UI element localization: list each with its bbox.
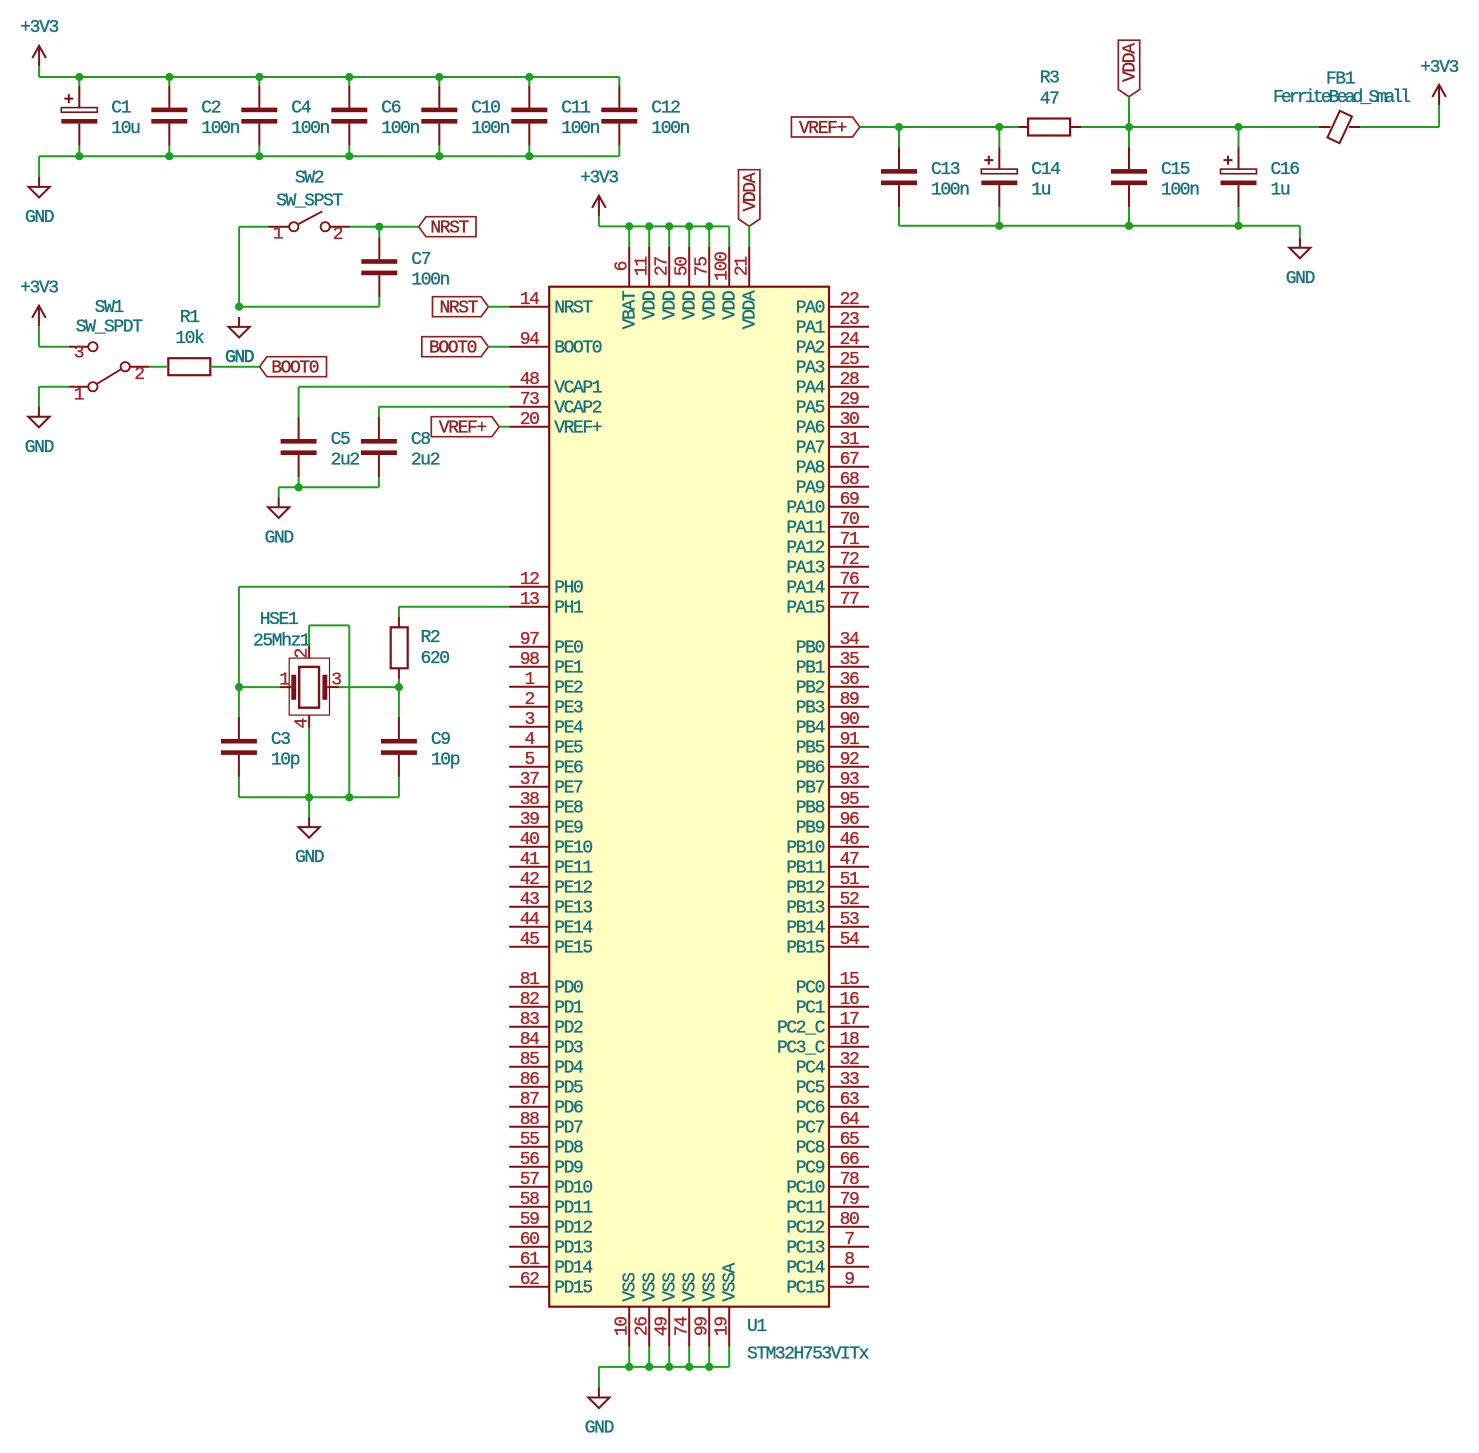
junction	[165, 152, 173, 160]
svg-text:PB11: PB11	[786, 859, 824, 879]
junction	[375, 223, 383, 231]
capacitor C6	[331, 86, 419, 146]
wire	[38, 387, 40, 407]
wire	[998, 207, 1000, 226]
pin PE0 (97)	[509, 630, 583, 659]
wire	[239, 686, 279, 688]
pin PB14 (53)	[786, 910, 869, 939]
svg-text:10: 10	[613, 1317, 633, 1336]
svg-text:PD1: PD1	[554, 999, 583, 1019]
wire	[348, 625, 350, 797]
pin PE14 (44)	[509, 910, 592, 939]
svg-text:+3V3: +3V3	[20, 18, 58, 38]
capacitor C3	[221, 717, 300, 777]
capacitor C2	[151, 86, 239, 146]
wire	[379, 226, 418, 228]
svg-text:VDDA: VDDA	[741, 172, 761, 211]
wire	[1128, 97, 1130, 127]
pin NRST (14)	[509, 290, 593, 319]
svg-text:100n: 100n	[411, 271, 449, 291]
svg-text:VSS: VSS	[661, 1273, 681, 1302]
svg-text:PA12: PA12	[786, 539, 824, 559]
svg-text:67: 67	[840, 450, 859, 470]
pin VSS (99)	[693, 1273, 721, 1347]
svg-text:11: 11	[633, 257, 653, 276]
resistor R3	[1028, 69, 1070, 136]
wire VDD bus	[599, 225, 729, 227]
pin PE7 (37)	[509, 770, 583, 799]
svg-text:C8: C8	[411, 430, 430, 450]
pin PE12 (42)	[509, 870, 592, 899]
svg-text:100n: 100n	[1161, 181, 1199, 201]
svg-text:93: 93	[840, 770, 859, 790]
svg-text:25Mhz1: 25Mhz1	[253, 632, 310, 652]
svg-text:PC0: PC0	[796, 979, 825, 999]
svg-text:71: 71	[840, 530, 859, 550]
svg-text:VREF+: VREF+	[799, 119, 847, 139]
ground (VCAP)	[265, 497, 294, 548]
pin PB7 (93)	[796, 770, 869, 799]
svg-text:PB4: PB4	[796, 719, 825, 739]
svg-text:PA3: PA3	[796, 359, 825, 379]
svg-text:PE0: PE0	[554, 639, 583, 659]
svg-text:81: 81	[520, 970, 539, 990]
svg-text:9: 9	[844, 1270, 854, 1290]
pin PB11 (47)	[786, 850, 869, 879]
svg-text:49: 49	[653, 1317, 673, 1336]
svg-text:1u: 1u	[1031, 181, 1050, 201]
wire	[348, 77, 350, 86]
svg-text:PA1: PA1	[796, 319, 825, 339]
svg-text:87: 87	[520, 1090, 539, 1110]
ground (crystal)	[295, 817, 324, 868]
svg-text:PC6: PC6	[796, 1099, 825, 1119]
pin PA9 (68)	[796, 470, 869, 499]
pin PC13 (7)	[786, 1230, 869, 1259]
svg-text:20: 20	[520, 410, 539, 430]
pin PD6 (87)	[509, 1090, 583, 1119]
wire VSS bus	[599, 1366, 729, 1368]
wire	[279, 486, 379, 488]
svg-text:16: 16	[840, 990, 859, 1010]
wire	[298, 477, 300, 487]
pin PA13 (72)	[786, 550, 869, 579]
svg-text:54: 54	[840, 930, 859, 950]
svg-text:2: 2	[333, 225, 343, 245]
crystal HSE1 25Mhz1	[253, 610, 341, 729]
svg-text:GND: GND	[1286, 269, 1315, 289]
svg-text:PD5: PD5	[554, 1079, 583, 1099]
capacitor C9	[381, 717, 460, 777]
junction	[75, 152, 83, 160]
svg-text:GND: GND	[225, 348, 254, 368]
svg-text:96: 96	[840, 810, 859, 830]
pin PA4 (28)	[796, 370, 869, 399]
pin PD0 (81)	[509, 970, 583, 999]
wire	[258, 77, 260, 86]
svg-text:VDDA: VDDA	[1121, 43, 1141, 82]
svg-text:35: 35	[840, 650, 859, 670]
wire	[499, 426, 509, 428]
pin PD13 (60)	[509, 1230, 592, 1259]
pin PC14 (8)	[786, 1250, 869, 1279]
svg-text:PD8: PD8	[554, 1139, 583, 1159]
pin PD2 (83)	[509, 1010, 583, 1039]
pin PA3 (25)	[796, 350, 869, 379]
svg-text:47: 47	[840, 850, 859, 870]
pin PD12 (59)	[509, 1210, 592, 1239]
wire	[168, 77, 170, 86]
junction	[625, 1363, 633, 1371]
pin PB10 (46)	[786, 830, 869, 859]
svg-text:PD6: PD6	[554, 1099, 583, 1119]
wire	[258, 146, 260, 157]
junction	[75, 73, 83, 81]
svg-text:51: 51	[840, 870, 859, 890]
svg-text:80: 80	[840, 1210, 859, 1230]
pin PD15 (62)	[509, 1270, 592, 1299]
svg-text:91: 91	[840, 730, 859, 750]
svg-text:PA6: PA6	[796, 419, 825, 439]
wire VCAP2	[379, 406, 509, 408]
svg-text:88: 88	[520, 1110, 539, 1130]
svg-text:1: 1	[74, 386, 84, 406]
svg-text:C16: C16	[1271, 160, 1300, 180]
wire	[278, 487, 280, 497]
svg-text:100n: 100n	[471, 119, 509, 139]
wire (crystal pin 2 loop)	[308, 625, 310, 646]
wire	[239, 226, 268, 228]
svg-text:63: 63	[840, 1090, 859, 1110]
svg-text:+3V3: +3V3	[1420, 58, 1458, 78]
svg-text:PD7: PD7	[554, 1119, 583, 1139]
svg-text:BOOT0: BOOT0	[429, 339, 477, 359]
svg-text:PC7: PC7	[796, 1119, 825, 1139]
svg-text:72: 72	[840, 550, 859, 570]
pin PD14 (61)	[509, 1250, 592, 1279]
pin PE4 (3)	[509, 710, 583, 739]
svg-text:82: 82	[520, 990, 539, 1010]
resistor R1	[168, 308, 210, 375]
svg-text:74: 74	[673, 1317, 693, 1336]
svg-text:43: 43	[520, 890, 539, 910]
junction	[525, 73, 533, 81]
pin PD9 (56)	[509, 1150, 583, 1179]
svg-text:45: 45	[520, 930, 539, 950]
capacitor C10	[421, 86, 509, 146]
svg-text:NRST: NRST	[554, 299, 593, 319]
svg-text:C10: C10	[471, 99, 500, 119]
svg-text:13: 13	[520, 590, 539, 610]
svg-text:47: 47	[1040, 90, 1059, 110]
pin PB12 (51)	[786, 870, 869, 899]
wire	[628, 1347, 630, 1367]
svg-text:83: 83	[520, 1010, 539, 1030]
junction	[435, 73, 443, 81]
svg-text:R3: R3	[1040, 69, 1059, 89]
pin PE2 (1)	[509, 670, 583, 699]
svg-text:28: 28	[840, 370, 859, 390]
junction	[645, 1363, 653, 1371]
svg-text:VDDA: VDDA	[741, 290, 761, 329]
wire	[238, 777, 240, 797]
svg-text:PD14: PD14	[554, 1259, 592, 1279]
pin VDD (100)	[713, 247, 741, 320]
svg-text:57: 57	[520, 1170, 539, 1190]
wire	[398, 607, 400, 617]
pin VREF+ (20)	[509, 410, 602, 439]
svg-text:PE7: PE7	[554, 779, 583, 799]
svg-text:62: 62	[520, 1270, 539, 1290]
capacitor C7	[361, 237, 449, 297]
svg-text:53: 53	[840, 910, 859, 930]
capacitor C8	[361, 417, 440, 477]
svg-text:VSS: VSS	[641, 1273, 661, 1302]
svg-text:18: 18	[840, 1030, 859, 1050]
net label VDDA (vertical, to pin 21)	[739, 170, 761, 227]
ground (VSS bus)	[585, 1388, 614, 1439]
svg-text:33: 33	[840, 1070, 859, 1090]
wire VCAP1	[299, 386, 510, 388]
pin PA6 (30)	[796, 410, 869, 439]
junction	[165, 73, 173, 81]
svg-text:41: 41	[520, 850, 539, 870]
svg-text:PB0: PB0	[796, 639, 825, 659]
wire	[668, 226, 670, 246]
svg-text:84: 84	[520, 1030, 539, 1050]
net label BOOT0 (to switch)	[260, 357, 327, 379]
svg-text:PD0: PD0	[554, 979, 583, 999]
pin PC8 (65)	[796, 1130, 869, 1159]
wire	[38, 156, 40, 177]
svg-text:PC12: PC12	[786, 1219, 824, 1239]
svg-text:PC11: PC11	[786, 1199, 824, 1219]
svg-text:PA0: PA0	[796, 299, 825, 319]
wire	[1438, 105, 1440, 127]
power +3V3 (SW1)	[20, 279, 58, 326]
wire	[708, 226, 710, 246]
pin PC11 (79)	[786, 1190, 869, 1219]
pin PA1 (23)	[796, 310, 869, 339]
svg-text:C15: C15	[1161, 160, 1190, 180]
svg-text:C3: C3	[271, 730, 290, 750]
wire	[39, 346, 69, 348]
junction	[995, 222, 1003, 230]
junction	[255, 73, 263, 81]
svg-text:PC9: PC9	[796, 1159, 825, 1179]
wire	[708, 1347, 710, 1367]
svg-text:78: 78	[840, 1170, 859, 1190]
svg-text:PE12: PE12	[554, 879, 592, 899]
wire	[378, 477, 380, 487]
pin PE6 (5)	[509, 750, 583, 779]
junction	[895, 123, 903, 131]
pin PD1 (82)	[509, 990, 583, 1019]
svg-text:C9: C9	[431, 730, 450, 750]
svg-text:60: 60	[520, 1230, 539, 1250]
svg-text:GND: GND	[25, 208, 54, 228]
pin PE8 (38)	[509, 790, 583, 819]
svg-text:42: 42	[520, 870, 539, 890]
wire	[38, 66, 40, 77]
svg-text:GND: GND	[265, 528, 294, 548]
wire	[39, 386, 69, 388]
pin PA2 (24)	[796, 330, 869, 359]
svg-text:C13: C13	[931, 160, 960, 180]
pin BOOT0 (94)	[509, 330, 602, 359]
junction	[345, 793, 353, 801]
svg-text:2u2: 2u2	[411, 451, 440, 471]
wire	[899, 225, 1300, 227]
wire	[78, 146, 80, 157]
pin PB1 (35)	[796, 650, 869, 679]
junction	[1234, 222, 1242, 230]
svg-text:77: 77	[840, 590, 859, 610]
wire	[1299, 226, 1301, 238]
junction	[685, 222, 693, 230]
pin PC3_C (18)	[777, 1030, 869, 1059]
junction	[395, 683, 403, 691]
wire	[688, 1347, 690, 1367]
wire	[210, 366, 259, 368]
capacitor C13	[881, 147, 969, 207]
svg-text:PA14: PA14	[786, 579, 824, 599]
svg-text:PC15: PC15	[786, 1279, 824, 1299]
svg-text:PD13: PD13	[554, 1239, 592, 1259]
svg-text:2: 2	[524, 690, 534, 710]
svg-text:70: 70	[840, 510, 859, 530]
svg-text:73: 73	[520, 390, 539, 410]
svg-text:PB15: PB15	[786, 939, 824, 959]
pin VSS (26)	[633, 1273, 661, 1347]
svg-text:64: 64	[840, 1110, 859, 1130]
svg-text:PC14: PC14	[786, 1259, 824, 1279]
svg-text:PE10: PE10	[554, 839, 592, 859]
svg-text:97: 97	[520, 630, 539, 650]
svg-text:PE14: PE14	[554, 919, 592, 939]
svg-text:PE5: PE5	[554, 739, 583, 759]
svg-text:PE4: PE4	[554, 719, 583, 739]
svg-text:PH0: PH0	[554, 579, 583, 599]
svg-text:PE9: PE9	[554, 819, 583, 839]
pin VCAP2 (73)	[509, 390, 602, 419]
svg-text:40: 40	[520, 830, 539, 850]
svg-text:FB1: FB1	[1326, 70, 1355, 90]
svg-text:100n: 100n	[931, 181, 969, 201]
junction	[685, 1363, 693, 1371]
svg-text:NRST: NRST	[440, 299, 479, 319]
junction	[705, 222, 713, 230]
svg-text:R1: R1	[180, 308, 199, 328]
pin PC2_C (17)	[777, 1010, 869, 1039]
svg-text:PB12: PB12	[786, 879, 824, 899]
wire	[78, 77, 80, 86]
svg-text:VDD: VDD	[661, 291, 681, 320]
capacitor C15	[1111, 147, 1199, 207]
pin VSS (49)	[653, 1273, 681, 1347]
svg-text:FerriteBead_Small: FerriteBead_Small	[1273, 88, 1410, 108]
svg-text:C12: C12	[651, 99, 680, 119]
svg-text:PH1: PH1	[554, 599, 583, 619]
wire	[1239, 126, 1319, 128]
pin PA5 (29)	[796, 390, 869, 419]
svg-text:HSE1: HSE1	[260, 610, 298, 630]
pin PD3 (84)	[509, 1030, 583, 1059]
ground (SW2)	[225, 317, 254, 368]
pin PE5 (4)	[509, 730, 583, 759]
svg-text:PE8: PE8	[554, 799, 583, 819]
wire	[728, 1347, 730, 1367]
wire	[438, 146, 440, 157]
junction	[625, 222, 633, 230]
svg-text:92: 92	[840, 750, 859, 770]
svg-text:PD10: PD10	[554, 1179, 592, 1199]
svg-text:100n: 100n	[381, 119, 419, 139]
svg-text:3: 3	[524, 710, 534, 730]
wire	[168, 146, 170, 157]
svg-text:1u: 1u	[1271, 181, 1290, 201]
switch SW1 SW_SPDT	[69, 298, 149, 406]
pin VSS (74)	[673, 1273, 701, 1347]
svg-text:PA4: PA4	[796, 379, 825, 399]
capacitor C4	[241, 86, 329, 146]
svg-text:85: 85	[520, 1050, 539, 1070]
svg-text:PD9: PD9	[554, 1159, 583, 1179]
wire	[348, 146, 350, 157]
pin PE9 (39)	[509, 810, 583, 839]
svg-text:PC1: PC1	[796, 999, 825, 1019]
svg-text:14: 14	[520, 290, 539, 310]
svg-text:PB14: PB14	[786, 919, 824, 939]
svg-text:C11: C11	[561, 99, 590, 119]
svg-text:PA10: PA10	[786, 499, 824, 519]
power +3V3 (VDD bus)	[580, 169, 618, 216]
pin VSS (10)	[613, 1273, 641, 1347]
wire PH1	[399, 606, 509, 608]
pin VDD (50)	[673, 247, 701, 320]
pin PC0 (15)	[796, 970, 869, 999]
svg-text:PC4: PC4	[796, 1059, 825, 1079]
svg-text:23: 23	[840, 310, 859, 330]
ground (filter)	[1286, 238, 1315, 289]
svg-text:89: 89	[840, 690, 859, 710]
pin PB4 (90)	[796, 710, 869, 739]
svg-text:C2: C2	[201, 99, 220, 119]
junction	[525, 152, 533, 160]
wire	[999, 126, 1019, 128]
power +3V3 (right)	[1420, 58, 1458, 105]
svg-text:PE13: PE13	[554, 899, 592, 919]
ferrite bead FB1	[1273, 70, 1410, 144]
svg-text:1: 1	[279, 671, 289, 691]
svg-text:PE6: PE6	[554, 759, 583, 779]
capacitor C1	[61, 86, 140, 146]
svg-text:VBAT: VBAT	[621, 290, 641, 329]
pin PE10 (40)	[509, 830, 592, 859]
pin PA10 (69)	[786, 490, 869, 519]
svg-text:PC2_C: PC2_C	[777, 1019, 826, 1039]
pin PD5 (86)	[509, 1070, 583, 1099]
capacitor C5	[281, 417, 360, 477]
pin VDDA (21)	[733, 247, 761, 330]
junction	[345, 152, 353, 160]
pin PA12 (71)	[786, 530, 869, 559]
svg-text:PC10: PC10	[786, 1179, 824, 1199]
pin VDD (27)	[653, 247, 681, 320]
svg-text:C14: C14	[1031, 160, 1060, 180]
svg-text:PB1: PB1	[796, 659, 825, 679]
junction	[295, 483, 303, 491]
